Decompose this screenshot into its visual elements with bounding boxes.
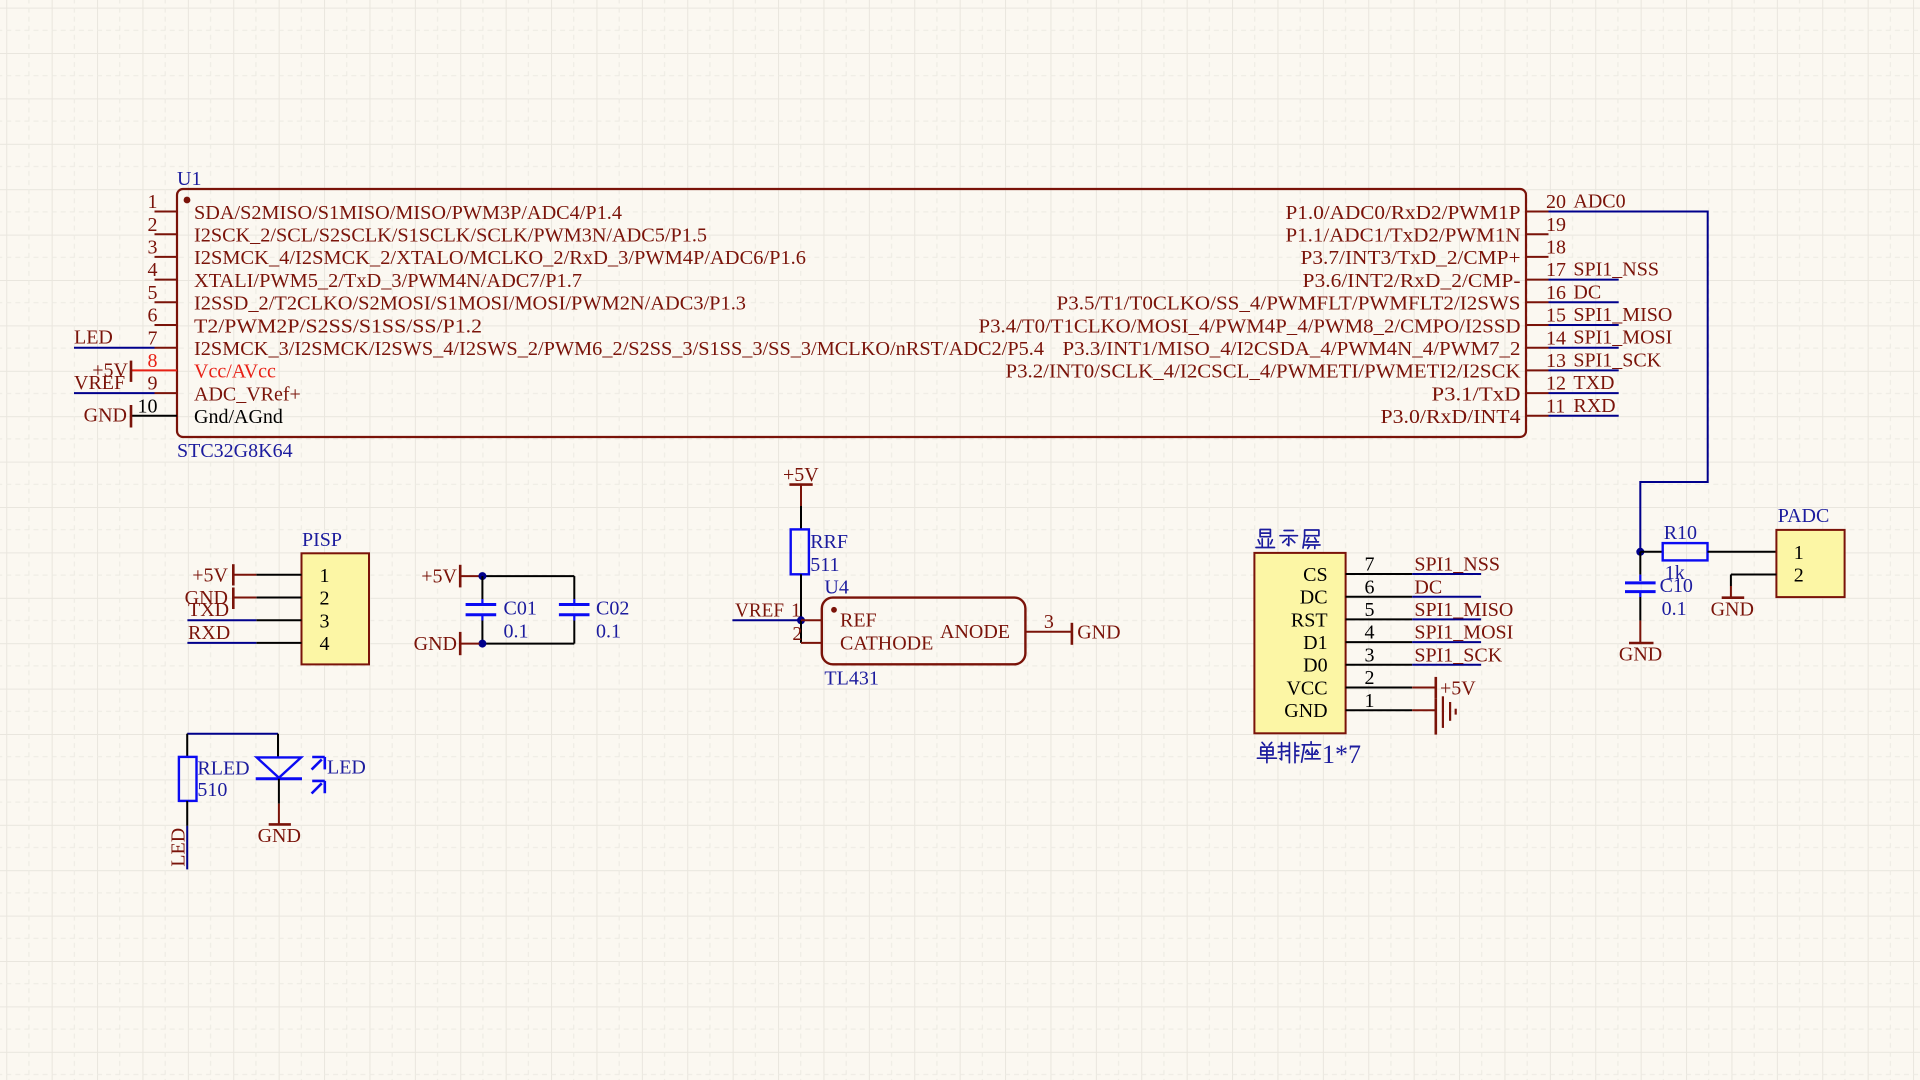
U1 pin 17 stub <box>1526 279 1549 281</box>
net label LED <box>74 327 113 349</box>
junction at C01 bottom <box>478 640 486 648</box>
U1 pin 4 name <box>194 270 582 292</box>
U1 pin 15 number <box>1546 305 1566 327</box>
svg-text:CATHODE: CATHODE <box>840 633 933 655</box>
net label TXD <box>1573 372 1614 394</box>
wire RLED bottom net LED <box>186 801 188 870</box>
U1 pin 19 number <box>1546 214 1566 236</box>
wire net SPI1_SCK <box>1412 664 1481 666</box>
svg-text:LED: LED <box>74 327 113 349</box>
wire LED cathode to GND <box>278 779 280 804</box>
net label SPI1_MISO <box>1573 304 1672 326</box>
svg-text:P3.6/INT2/RxD_2/CMP-: P3.6/INT2/RxD_2/CMP- <box>1303 270 1521 292</box>
U1 pin 3 name <box>194 247 806 269</box>
U1 pin 19 name <box>1286 225 1521 247</box>
display pin 2 stub <box>1346 687 1413 689</box>
display pin name RST <box>1291 609 1328 631</box>
svg-text:4: 4 <box>320 633 330 655</box>
U1 pin 11 stub <box>1526 415 1549 417</box>
svg-text:P3.3/INT1/MISO_4/I2CSDA_4/PWM4: P3.3/INT1/MISO_4/I2CSDA_4/PWM4N_4/PWM7_2 <box>1063 338 1521 360</box>
C10 value 0.1 <box>1662 598 1687 620</box>
wire top rail RLED to LED <box>187 734 278 758</box>
U1 pin 3 stub <box>155 256 178 258</box>
PISP pin 3 stub <box>256 619 301 621</box>
U4 pin 1 REF <box>791 599 877 631</box>
C01 designator <box>504 597 537 619</box>
svg-text:8: 8 <box>148 350 158 372</box>
svg-text:VCC: VCC <box>1286 677 1327 699</box>
svg-text:DC: DC <box>1573 281 1601 303</box>
U1 pin 11 name <box>1381 406 1521 428</box>
connector PISP body <box>302 553 370 664</box>
svg-text:SPI1_NSS: SPI1_NSS <box>1573 259 1659 281</box>
PISP pin 2 number <box>320 588 330 610</box>
svg-text:C10: C10 <box>1660 575 1693 597</box>
ground GND at U1 pin 10 <box>84 405 131 428</box>
svg-text:SPI1_MOSI: SPI1_MOSI <box>1414 622 1513 644</box>
svg-text:TXD: TXD <box>188 599 229 621</box>
svg-text:SPI1_SCK: SPI1_SCK <box>1573 349 1661 371</box>
wire at U1 pin 13 <box>1549 369 1619 371</box>
display pin 5 stub <box>1346 618 1413 620</box>
wire +5V to RRF <box>800 506 802 529</box>
svg-text:18: 18 <box>1546 237 1566 259</box>
svg-text:VREF: VREF <box>74 372 125 394</box>
wire net SPI1_MOSI <box>1412 641 1481 643</box>
svg-text:VREF: VREF <box>735 599 784 621</box>
connector display designator 显示屏 <box>1256 530 1320 549</box>
svg-text:0.1: 0.1 <box>1662 598 1687 620</box>
svg-text:ANODE: ANODE <box>940 621 1010 643</box>
svg-text:STC32G8K64: STC32G8K64 <box>177 440 293 462</box>
svg-text:4: 4 <box>1365 622 1375 644</box>
resistor RRF <box>791 529 809 574</box>
svg-text:SPI1_MOSI: SPI1_MOSI <box>1573 327 1672 349</box>
U1 pin 14 stub <box>1526 347 1549 349</box>
PISP pin 1 number <box>320 565 330 587</box>
PADC pin 1 number <box>1794 542 1804 564</box>
net label DC <box>1573 281 1601 303</box>
RRF designator <box>810 531 848 553</box>
U1 pin 12 number <box>1546 373 1566 395</box>
display pin 6 stub <box>1346 596 1413 598</box>
U1 pin 3 number <box>148 237 158 259</box>
svg-text:C01: C01 <box>504 597 537 619</box>
U1 pin 12 stub <box>1526 392 1549 394</box>
U1 pin 17 number <box>1546 259 1566 281</box>
connector display body <box>1254 553 1345 733</box>
svg-text:1: 1 <box>791 599 801 621</box>
PISP pin 4 stub <box>256 642 301 644</box>
svg-text:ADC0: ADC0 <box>1573 191 1625 213</box>
net label SPI1_SCK <box>1414 644 1502 666</box>
U1 pin 14 number <box>1546 327 1566 349</box>
wire net RXD at PISP pin 4 <box>187 642 256 644</box>
svg-text:+5V: +5V <box>421 565 457 587</box>
PISP pin 3 number <box>320 610 330 632</box>
U1 pin 5 name <box>194 293 746 315</box>
LED comment text <box>327 757 366 779</box>
svg-text:ADC_VRef+: ADC_VRef+ <box>194 383 301 405</box>
U1 pin 7 name <box>194 338 1044 360</box>
U1 pin 18 number <box>1546 237 1566 259</box>
wire net LED at U1 pin 7 <box>74 347 155 349</box>
svg-text:SPI1_MISO: SPI1_MISO <box>1414 599 1513 621</box>
U1 pin 17 name <box>1303 270 1521 292</box>
svg-text:0.1: 0.1 <box>596 620 621 642</box>
svg-text:XTALI/PWM5_2/TxD_3/PWM4N/ADC7/: XTALI/PWM5_2/TxD_3/PWM4N/ADC7/P1.7 <box>194 270 582 292</box>
wire at U1 pin 12 <box>1549 392 1619 394</box>
U1 pin 13 stub <box>1526 369 1549 371</box>
wire C01 top <box>481 576 483 599</box>
wire at U1 pin 17 <box>1549 279 1619 281</box>
svg-text:LED: LED <box>167 828 189 867</box>
wire net SPI1_MISO <box>1412 618 1481 620</box>
wire C01 bottom <box>481 621 483 644</box>
svg-text:SPI1_MISO: SPI1_MISO <box>1573 304 1672 326</box>
C02 value 0.1 <box>596 620 621 642</box>
U1 part name STC32G8K64 <box>177 440 293 462</box>
wire net TXD at PISP pin 3 <box>187 619 256 621</box>
U1 pin 7 stub <box>155 347 178 349</box>
svg-text:GND: GND <box>414 633 457 655</box>
ground GND below LED <box>258 804 301 847</box>
wire GND bottom rail <box>480 621 575 644</box>
U1 pin 20 name <box>1286 202 1521 224</box>
capacitor C01 <box>466 599 497 621</box>
wire net DC <box>1412 596 1481 598</box>
svg-text:2: 2 <box>1794 565 1804 587</box>
svg-text:12: 12 <box>1546 373 1566 395</box>
svg-text:5: 5 <box>1365 599 1375 621</box>
U1 pin 1 number <box>148 191 158 213</box>
svg-text:19: 19 <box>1546 214 1566 236</box>
svg-text:RXD: RXD <box>1573 395 1615 417</box>
svg-text:PISP: PISP <box>302 529 342 551</box>
U1 pin 15 stub <box>1526 324 1549 326</box>
display pin 7 stub <box>1346 573 1413 575</box>
wire at U1 pin 15 <box>1549 324 1619 326</box>
svg-text:16: 16 <box>1546 282 1566 304</box>
display pin name D0 <box>1303 655 1327 677</box>
display pin 3 stub <box>1346 664 1413 666</box>
display pin 5 number <box>1365 599 1375 621</box>
net label VREF <box>735 599 784 621</box>
svg-text:DC: DC <box>1414 576 1442 598</box>
U1 pin 12 name <box>1432 383 1521 405</box>
svg-text:GND: GND <box>84 405 127 427</box>
svg-text:P3.5/T1/T0CLKO/SS_4/PWMFLT/PWM: P3.5/T1/T0CLKO/SS_4/PWMFLT/PWMFLT2/I2SWS <box>1057 293 1521 315</box>
U1 pin 6 stub <box>155 324 178 326</box>
svg-text:P1.1/ADC1/TxD2/PWM1N: P1.1/ADC1/TxD2/PWM1N <box>1286 225 1521 247</box>
PISP pin 4 number <box>320 633 330 655</box>
capacitor C02 <box>559 599 590 621</box>
svg-text:P1.0/ADC0/RxD2/PWM1P: P1.0/ADC0/RxD2/PWM1P <box>1286 202 1521 224</box>
svg-text:GND: GND <box>1619 644 1662 666</box>
RLED value 510 <box>197 779 227 801</box>
wire +5V top rail <box>480 576 575 599</box>
svg-text:7: 7 <box>148 327 158 349</box>
display pin name D1 <box>1303 632 1327 654</box>
U1 pin 10 name <box>194 406 283 428</box>
connector PADC body <box>1776 530 1844 597</box>
ground GND below C10 <box>1619 621 1662 666</box>
display pin 6 number <box>1365 576 1375 598</box>
svg-text:GND: GND <box>1711 599 1754 621</box>
svg-text:510: 510 <box>197 779 227 801</box>
PADC pin 2 number <box>1794 565 1804 587</box>
U1 pin 16 number <box>1546 282 1566 304</box>
ground GND at PISP pin 2 <box>185 587 257 609</box>
net label SPI1_MOSI <box>1414 622 1513 644</box>
net label SPI1_SCK <box>1573 349 1661 371</box>
U1 pin 5 stub <box>155 301 178 303</box>
svg-text:3: 3 <box>320 610 330 632</box>
svg-text:SPI1_NSS: SPI1_NSS <box>1414 554 1500 576</box>
svg-text:Gnd/AGnd: Gnd/AGnd <box>194 406 283 428</box>
svg-text:I2SSD_2/T2CLKO/S2MOSI/S1MOSI/M: I2SSD_2/T2CLKO/S2MOSI/S1MOSI/MOSI/PWM2N/… <box>194 293 746 315</box>
display pin 4 stub <box>1346 641 1413 643</box>
svg-text:CS: CS <box>1303 564 1327 586</box>
IC U1 body STC32G8K64 <box>177 189 1526 437</box>
svg-text:GND: GND <box>258 825 301 847</box>
net label SPI1_MISO <box>1414 599 1513 621</box>
svg-text:6: 6 <box>148 305 158 327</box>
display pin 1 stub <box>1346 709 1413 711</box>
svg-text:PADC: PADC <box>1778 505 1830 527</box>
svg-text:P3.0/RxD/INT4: P3.0/RxD/INT4 <box>1381 406 1521 428</box>
svg-text:511: 511 <box>810 554 839 576</box>
PISP pin 2 stub <box>256 597 301 599</box>
U1 pin 4 stub <box>155 279 178 281</box>
power +5V feeding C01/C02 <box>421 565 479 588</box>
svg-text:P3.1/TxD: P3.1/TxD <box>1432 383 1521 405</box>
svg-text:RXD: RXD <box>188 622 230 644</box>
wire display VCC to +5V <box>1412 687 1436 689</box>
svg-text:RLED: RLED <box>197 758 249 780</box>
svg-text:2: 2 <box>320 588 330 610</box>
svg-text:DC: DC <box>1300 587 1328 609</box>
svg-text:I2SMCK_3/I2SMCK/I2SWS_4/I2SWS_: I2SMCK_3/I2SMCK/I2SWS_4/I2SWS_2/PWM6_2/S… <box>194 338 1044 360</box>
R10 value 1k <box>1665 562 1685 584</box>
net label TXD <box>188 599 229 621</box>
display part name 单排座1*7 <box>1257 740 1361 769</box>
U1 pin 1 name <box>194 202 622 224</box>
IC U4 designator <box>824 577 848 599</box>
display pin name GND <box>1284 700 1327 722</box>
wire PADC pin 2 to GND <box>1731 575 1777 587</box>
connector PADC designator <box>1778 505 1830 527</box>
wire node to C10 <box>1639 552 1641 575</box>
svg-text:3: 3 <box>1365 644 1375 666</box>
U4 pin 3 ANODE <box>940 611 1072 643</box>
svg-text:+5V: +5V <box>783 464 819 486</box>
RLED designator <box>197 758 249 780</box>
net label SPI1_MOSI <box>1573 327 1672 349</box>
IC U4 TL431 body <box>822 598 1026 665</box>
svg-text:SPI1_SCK: SPI1_SCK <box>1414 644 1502 666</box>
svg-text:2: 2 <box>792 623 802 645</box>
wire VREF <box>732 619 801 621</box>
C02 designator <box>596 597 629 619</box>
C10 designator <box>1660 575 1693 597</box>
wire at U1 pin 11 <box>1549 415 1619 417</box>
display pin 2 number <box>1365 667 1375 689</box>
U1 pin 20 stub <box>1526 211 1549 213</box>
R10 designator <box>1664 522 1697 544</box>
svg-text:11: 11 <box>1546 395 1565 417</box>
wire display GND pin 1 <box>1412 709 1436 711</box>
svg-text:GND: GND <box>1284 700 1327 722</box>
svg-text:3: 3 <box>1044 611 1054 633</box>
U1 pin 18 stub <box>1526 256 1549 258</box>
U1 pin 16 name <box>1057 293 1521 315</box>
resistor R10 <box>1663 543 1708 560</box>
power +5V at PISP pin 1 <box>192 564 256 586</box>
wire node to R10 <box>1640 551 1662 553</box>
ground (power ground) at display pin 1 <box>1436 696 1456 734</box>
svg-text:R10: R10 <box>1664 522 1697 544</box>
power +5V above RRF <box>783 464 819 506</box>
U1 pin 11 number <box>1546 395 1565 417</box>
svg-text:0.1: 0.1 <box>504 620 529 642</box>
svg-text:14: 14 <box>1546 327 1566 349</box>
svg-text:GND: GND <box>1077 621 1120 643</box>
svg-text:2: 2 <box>1365 667 1375 689</box>
U1 pin 20 number <box>1546 191 1566 213</box>
wire RRF to VREF node <box>800 574 802 620</box>
wire net ADC0 from U1 pin 20 <box>1549 212 1708 552</box>
svg-text:RRF: RRF <box>810 531 848 553</box>
junction node VREF <box>797 616 805 624</box>
LED arrows <box>312 757 325 794</box>
svg-text:5: 5 <box>148 282 158 304</box>
U1 pin 6 name <box>194 315 482 337</box>
power +5V at display pin 2 <box>1436 677 1476 700</box>
U1 pin 9 number <box>148 373 158 395</box>
svg-text:1*7: 1*7 <box>1322 740 1361 769</box>
svg-text:17: 17 <box>1546 259 1566 281</box>
connector PISP designator <box>302 529 342 551</box>
svg-text:1: 1 <box>148 191 158 213</box>
display pin 7 number <box>1365 554 1375 576</box>
svg-text:U1: U1 <box>177 168 201 190</box>
display pin name VCC <box>1286 677 1327 699</box>
wire VREF node to U4 pin 2 <box>800 620 802 643</box>
resistor RLED <box>179 757 197 801</box>
U1 pin 10 number <box>138 395 158 417</box>
svg-text:U4: U4 <box>824 577 848 599</box>
svg-text:I2SCK_2/SCL/S2SCLK/S1SCLK/SCLK: I2SCK_2/SCL/S2SCLK/S1SCLK/SCLK/PWM3N/ADC… <box>194 225 707 247</box>
C01 value 0.1 <box>504 620 529 642</box>
wire R10 to PADC pin 1 <box>1708 551 1777 553</box>
svg-text:T2/PWM2P/S2SS/S1SS/SS/P1.2: T2/PWM2P/S2SS/S1SS/SS/P1.2 <box>194 315 482 337</box>
wire C10 to GND <box>1639 597 1641 621</box>
U1 pin 16 stub <box>1526 301 1549 303</box>
U1 pin 10 stub <box>131 415 177 417</box>
U1 pin 8 number <box>148 350 158 372</box>
capacitor C10 <box>1625 575 1656 597</box>
U1 pin 2 name <box>194 225 707 247</box>
svg-text:P3.4/T0/T1CLKO/MOSI_4/PWM4P_4/: P3.4/T0/T1CLKO/MOSI_4/PWM4P_4/PWM8_2/CMP… <box>979 315 1521 337</box>
svg-text:7: 7 <box>1365 554 1375 576</box>
display pin 1 number <box>1365 690 1375 712</box>
svg-text:C02: C02 <box>596 597 629 619</box>
IC U1 designator <box>177 168 201 190</box>
svg-text:I2SMCK_4/I2SMCK_2/XTALO/MCLKO_: I2SMCK_4/I2SMCK_2/XTALO/MCLKO_2/RxD_3/PW… <box>194 247 806 269</box>
U1 pin 8 name <box>194 361 276 383</box>
U1 pin 13 number <box>1546 350 1566 372</box>
U1 pin 15 name <box>979 315 1521 337</box>
svg-text:LED: LED <box>327 757 366 779</box>
svg-text:10: 10 <box>138 395 158 417</box>
wire at U1 pin 16 <box>1549 301 1619 303</box>
svg-text:15: 15 <box>1546 305 1566 327</box>
svg-text:1: 1 <box>320 565 330 587</box>
net label LED (vertical) <box>167 828 189 867</box>
display pin 4 number <box>1365 622 1375 644</box>
ground GND at U4 pin 3 <box>1072 621 1121 645</box>
svg-text:20: 20 <box>1546 191 1566 213</box>
svg-text:TXD: TXD <box>1573 372 1614 394</box>
svg-text:9: 9 <box>148 373 158 395</box>
junction node ADC0 <box>1636 548 1644 556</box>
net label SPI1_NSS <box>1414 554 1500 576</box>
svg-text:RST: RST <box>1291 609 1328 631</box>
net label ADC0 <box>1573 191 1625 213</box>
svg-text:1: 1 <box>1794 542 1804 564</box>
display pin 3 number <box>1365 644 1375 666</box>
svg-text:13: 13 <box>1546 350 1566 372</box>
U4 part name TL431 <box>824 667 878 689</box>
svg-text:3: 3 <box>148 237 158 259</box>
svg-text:D1: D1 <box>1303 632 1327 654</box>
display pin name CS <box>1303 564 1327 586</box>
net label RXD <box>188 622 230 644</box>
ground GND at PADC pin 2 <box>1711 586 1754 621</box>
svg-text:2: 2 <box>148 214 158 236</box>
U1 pin 5 number <box>148 282 158 304</box>
U1 pin 6 number <box>148 305 158 327</box>
U1 pin 19 stub <box>1526 233 1549 235</box>
U1 pin 2 stub <box>155 233 178 235</box>
svg-text:SDA/S2MISO/S1MISO/MISO/PWM3P/A: SDA/S2MISO/S1MISO/MISO/PWM3P/ADC4/P1.4 <box>194 202 622 224</box>
net label RXD <box>1573 395 1615 417</box>
U1 pin 4 number <box>148 259 158 281</box>
U1 pin 13 name <box>1006 361 1522 383</box>
svg-text:6: 6 <box>1365 576 1375 598</box>
wire net SPI1_NSS <box>1412 573 1481 575</box>
U1 pin 2 number <box>148 214 158 236</box>
U1 pin 9 name <box>194 383 301 405</box>
U1 pin 18 name <box>1301 247 1521 269</box>
U1 pin 7 number <box>148 327 158 349</box>
svg-text:+5V: +5V <box>1440 678 1476 700</box>
display pin name DC <box>1300 587 1328 609</box>
U1 pin 14 name <box>1063 338 1521 360</box>
PISP pin 1 stub <box>256 574 301 576</box>
svg-text:4: 4 <box>148 259 158 281</box>
svg-text:+5V: +5V <box>192 565 228 587</box>
RRF value 511 <box>810 554 839 576</box>
net label SPI1_NSS <box>1573 259 1659 281</box>
svg-text:TL431: TL431 <box>824 667 878 689</box>
power +5V at U1 pin 8 <box>92 359 131 382</box>
net label DC <box>1414 576 1442 598</box>
ground GND below C01 <box>414 632 480 655</box>
U1 pin 1 stub <box>155 211 178 213</box>
U4 pin 2 CATHODE <box>792 623 933 655</box>
